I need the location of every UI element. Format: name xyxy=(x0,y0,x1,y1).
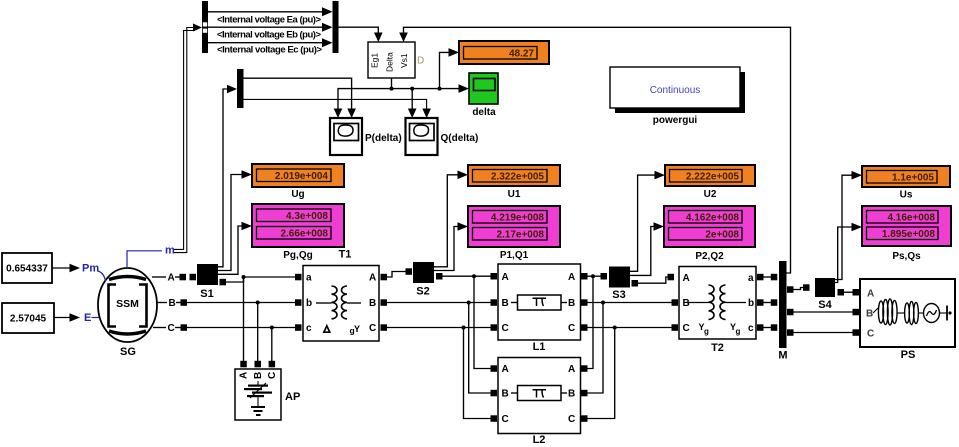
transmission line L1 xyxy=(498,264,581,340)
svg-text:C: C xyxy=(568,323,575,334)
svg-text:Pm: Pm xyxy=(82,263,99,275)
machine SG (SSM) xyxy=(98,268,157,342)
svg-text:Delta: Delta xyxy=(385,52,395,72)
load AP xyxy=(235,361,281,420)
svg-text:E: E xyxy=(84,312,91,324)
xy scope Q(delta) xyxy=(406,118,438,155)
wire S2 to U1 xyxy=(434,171,468,267)
svg-text:A: A xyxy=(502,272,509,283)
machine port B wire to T1 xyxy=(156,298,302,309)
svg-text:D: D xyxy=(417,56,424,67)
svg-text:B: B xyxy=(369,298,376,309)
wire T1 C to L1 C with tap to L2 C xyxy=(387,324,497,422)
svg-text:Ug: Ug xyxy=(291,189,304,200)
svg-text:M: M xyxy=(778,350,787,362)
svg-text:SG: SG xyxy=(120,346,136,358)
scope delta (green) xyxy=(469,73,498,104)
svg-text:Ps,Qs: Ps,Qs xyxy=(892,251,921,262)
svg-text:Y: Y xyxy=(354,324,360,334)
svg-text:C: C xyxy=(502,414,509,425)
wire m output (blue) xyxy=(127,245,175,269)
powergui block xyxy=(610,67,745,113)
svg-text:b: b xyxy=(748,298,754,309)
svg-text:U2: U2 xyxy=(704,189,717,200)
wire B2 output1 (P) to P(delta) input 2 xyxy=(244,78,356,118)
wire AP phase C drop xyxy=(270,326,274,362)
svg-text:2.019e+004: 2.019e+004 xyxy=(275,171,329,182)
svg-text:a: a xyxy=(306,273,312,284)
svg-text:<Internal voltage Ec (pu)>: <Internal voltage Ec (pu)> xyxy=(217,45,322,56)
svg-text:4.219e+008: 4.219e+008 xyxy=(491,213,545,224)
wire delta down to Q(delta) input 1 xyxy=(408,89,417,118)
svg-text:powergui: powergui xyxy=(653,115,698,126)
wire S3 to T2 A xyxy=(632,274,675,287)
svg-text:delta: delta xyxy=(472,107,496,118)
svg-text:A: A xyxy=(568,364,575,375)
svg-text:C: C xyxy=(502,323,509,334)
measurement block S3 xyxy=(609,267,630,288)
wire S2 to L1 A with tap to L2 A xyxy=(436,273,497,372)
svg-text:T1: T1 xyxy=(339,249,352,261)
svg-text:S3: S3 xyxy=(612,289,625,301)
svg-text:C: C xyxy=(867,329,874,340)
wire S1 to Pg,Qg xyxy=(218,222,252,275)
svg-text:Eg1: Eg1 xyxy=(370,53,380,68)
wire Eb from B1 to mux M1 xyxy=(208,23,333,32)
display Pg,Qg xyxy=(252,204,344,247)
svg-text:PS: PS xyxy=(901,349,916,361)
wire M to PS C xyxy=(787,329,859,336)
machine port C wire to T1 xyxy=(153,323,302,334)
svg-text:A: A xyxy=(168,273,175,284)
display Ug xyxy=(252,164,344,187)
wire AP phase B drop xyxy=(256,301,260,362)
port label Pm (blue) xyxy=(82,263,106,282)
wire Ea from B1 to mux M1 xyxy=(208,7,333,16)
wire S3 to U2 xyxy=(630,171,665,271)
svg-text:B: B xyxy=(253,372,264,379)
wire T1 B to L1 B with tap to L2 B xyxy=(387,299,497,396)
svg-text:A: A xyxy=(568,272,575,283)
svg-text:A: A xyxy=(683,273,690,284)
svg-text:AP: AP xyxy=(285,391,300,403)
T1 output port squares xyxy=(381,274,388,331)
wire S4 to PS A xyxy=(838,289,860,296)
constant 2.57045 xyxy=(2,303,54,333)
svg-text:P(delta): P(delta) xyxy=(365,133,402,144)
display 48.27 xyxy=(459,41,549,64)
svg-text:<Internal voltage Ea (pu)>: <Internal voltage Ea (pu)> xyxy=(217,15,321,26)
svg-text:b: b xyxy=(306,298,312,309)
svg-text:a: a xyxy=(748,273,754,284)
svg-text:0.654337: 0.654337 xyxy=(6,264,48,275)
demux bar B2 (above S1) xyxy=(237,69,244,108)
svg-text:P1,Q1: P1,Q1 xyxy=(500,250,529,261)
wire S4 to Ps,Qs xyxy=(835,223,862,283)
wire mux M1 output to Eg1 input xyxy=(339,27,383,42)
svg-text:C: C xyxy=(168,323,175,334)
wire S4 to Us xyxy=(835,171,862,280)
svg-text:B: B xyxy=(683,298,690,309)
svg-text:g: g xyxy=(704,327,709,336)
svg-text:c: c xyxy=(748,323,754,334)
svg-text:2.57045: 2.57045 xyxy=(10,314,47,325)
wire L1 B out to T2 B with tap from L2 B xyxy=(581,299,678,396)
block U1 angle computer (Eg1/Delta/Vs1) xyxy=(368,42,415,78)
mux bar M1 xyxy=(333,1,339,53)
wire from mux M to Vs1 input (long top wire) xyxy=(399,27,790,273)
wire S1 measurement to B2 xyxy=(218,85,237,267)
svg-text:B: B xyxy=(568,389,575,400)
svg-text:A: A xyxy=(867,289,874,300)
svg-text:4.162e+008: 4.162e+008 xyxy=(686,213,740,224)
machine port A wire and terminals xyxy=(152,273,196,284)
svg-text:B: B xyxy=(568,298,575,309)
svg-text:2.66e+008: 2.66e+008 xyxy=(280,229,328,240)
wire S1 output a to T1 (with jog) xyxy=(220,274,302,286)
svg-text:C: C xyxy=(267,372,278,379)
svg-text:S1: S1 xyxy=(200,288,213,300)
measurement bar M xyxy=(779,261,787,348)
display P2,Q2 xyxy=(664,206,755,247)
svg-text:P2,Q2: P2,Q2 xyxy=(695,251,724,262)
svg-text:2e+008: 2e+008 xyxy=(705,230,739,241)
svg-text:U1: U1 xyxy=(508,189,521,200)
svg-text:L1: L1 xyxy=(533,341,546,353)
svg-text:S4: S4 xyxy=(818,299,832,311)
svg-text:C: C xyxy=(683,323,690,334)
svg-text:4.16e+008: 4.16e+008 xyxy=(887,213,935,224)
display Ps,Qs xyxy=(862,206,951,246)
svg-text:Continuous: Continuous xyxy=(650,85,701,96)
measurement block S1 xyxy=(197,264,218,285)
display U1 xyxy=(468,165,560,186)
wire S1 to Ug xyxy=(218,170,252,270)
svg-text:2.322e+005: 2.322e+005 xyxy=(491,172,545,183)
xy scope P(delta) xyxy=(330,118,362,155)
svg-text:2.222e+005: 2.222e+005 xyxy=(686,172,740,183)
display U2 xyxy=(665,165,755,186)
wire T1 A to S2 xyxy=(387,268,412,277)
svg-text:C: C xyxy=(568,414,575,425)
svg-text:C: C xyxy=(369,323,376,334)
svg-text:c: c xyxy=(306,323,312,334)
wire Ec from B1 to mux M1 xyxy=(208,38,333,47)
svg-text:B: B xyxy=(866,309,873,320)
wire AP phase A drop xyxy=(243,277,245,361)
wire S2 to P1,Q1 xyxy=(434,222,468,270)
svg-text:Us: Us xyxy=(900,190,913,201)
constant 0.654337 xyxy=(2,253,52,283)
measurement block S2 xyxy=(413,262,434,283)
svg-text:1.1e+005: 1.1e+005 xyxy=(892,173,934,184)
wire M to S4 xyxy=(787,284,810,293)
svg-text:1.895e+008: 1.895e+008 xyxy=(882,229,936,240)
wire m bus double-line from machine to B1 xyxy=(174,24,202,253)
svg-text:4.3e+008: 4.3e+008 xyxy=(286,211,328,222)
transformer T2 xyxy=(679,267,756,340)
wire B2 output2 (Q) to Q(delta) input 2 xyxy=(244,99,431,118)
port label E (blue) xyxy=(84,312,99,324)
wire constant to Pm xyxy=(52,264,80,273)
svg-text:A: A xyxy=(369,273,376,284)
svg-text:2.17e+008: 2.17e+008 xyxy=(496,230,544,241)
svg-text:Vs1: Vs1 xyxy=(399,53,409,68)
svg-text:A: A xyxy=(502,364,509,375)
svg-text:48.27: 48.27 xyxy=(509,49,534,60)
svg-text:m: m xyxy=(165,245,175,257)
bus selector bar B1 (top-left) xyxy=(202,1,208,53)
svg-text:g: g xyxy=(736,327,741,336)
wires T2 a,b,c to M xyxy=(757,274,777,331)
display Us xyxy=(862,166,950,187)
svg-text:SSM: SSM xyxy=(116,298,139,310)
svg-text:L2: L2 xyxy=(533,434,546,446)
svg-text:A: A xyxy=(239,372,250,379)
wire L1 A out to S3 with tap from L2 A xyxy=(581,273,607,372)
svg-text:Q(delta): Q(delta) xyxy=(441,133,479,144)
svg-text:S2: S2 xyxy=(416,286,429,298)
svg-text:T2: T2 xyxy=(711,342,724,354)
svg-text:Pg,Qg: Pg,Qg xyxy=(283,250,312,261)
svg-text:B: B xyxy=(502,389,509,400)
svg-text:B: B xyxy=(169,298,176,309)
wire L1 C out to T2 C with tap from L2 C xyxy=(581,324,678,422)
wire constant to E xyxy=(54,313,80,322)
wire delta to 48.27 display xyxy=(440,48,460,89)
wire S3 to P2,Q2 xyxy=(630,222,664,275)
wire M to PS B xyxy=(787,309,859,316)
svg-text:<Internal voltage Eb (pu)>: <Internal voltage Eb (pu)> xyxy=(217,30,321,41)
svg-text:B: B xyxy=(502,298,509,309)
transformer T1 xyxy=(303,266,379,342)
transmission line L2 xyxy=(498,358,581,434)
display P1,Q1 xyxy=(468,206,560,247)
measurement block S4 xyxy=(815,278,835,297)
wire delta net (block output down, across) xyxy=(334,78,469,118)
source PS xyxy=(860,279,955,347)
